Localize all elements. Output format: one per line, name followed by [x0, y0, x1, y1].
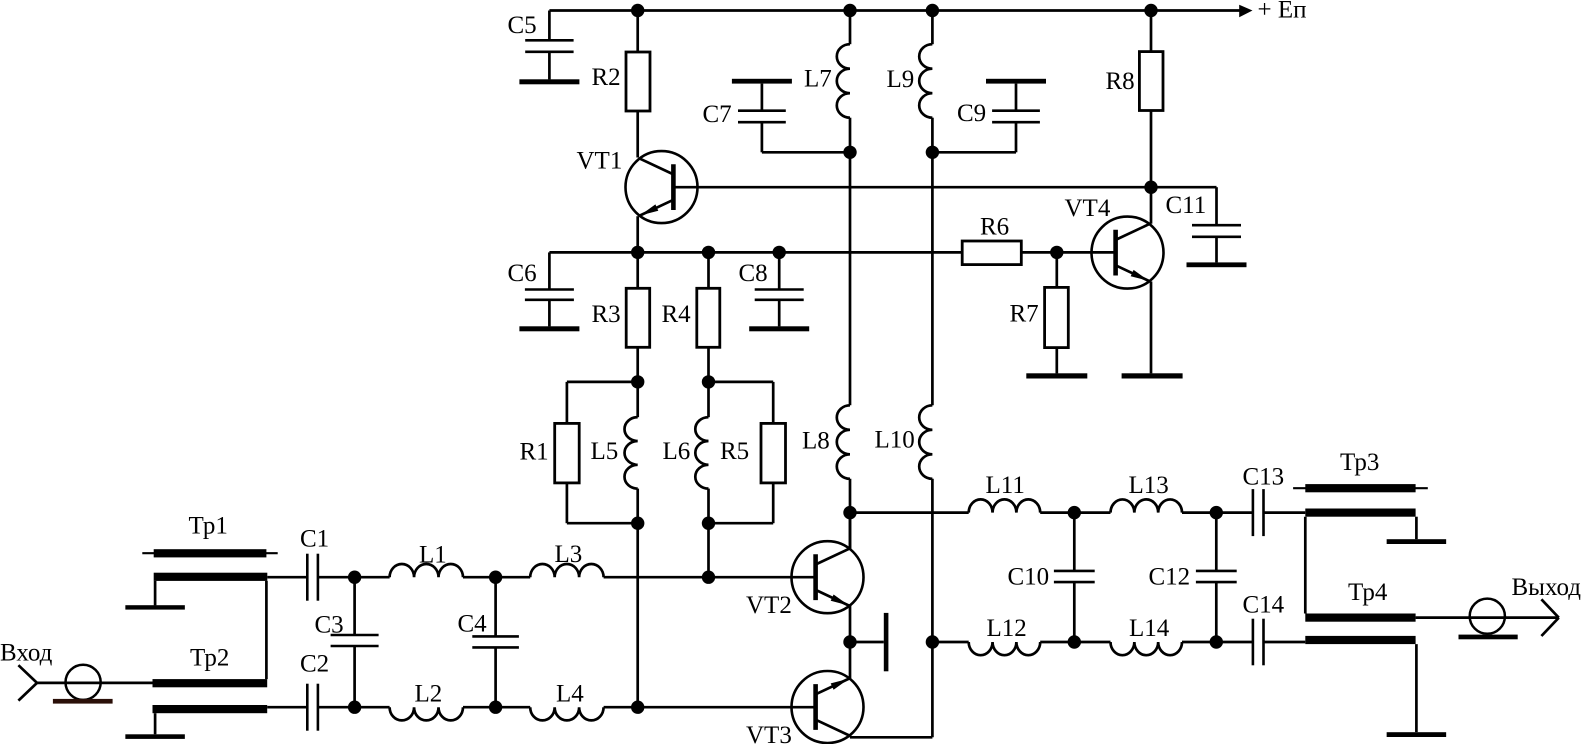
node L9-C9: [926, 146, 939, 159]
wire VT1 base line: [673, 186, 1216, 189]
node C10-top: [1068, 506, 1081, 519]
svg-text:L7: L7: [804, 66, 832, 93]
node C4-top: [489, 571, 502, 584]
wire R6 to VT4 base: [1021, 251, 1115, 254]
wire L7-L8: [849, 152, 852, 405]
wire L10 to L12: [932, 641, 968, 644]
resistor R3: [626, 252, 650, 382]
node C3-bottom: [348, 701, 361, 714]
svg-text:VT4: VT4: [1065, 195, 1111, 222]
svg-text:L10: L10: [875, 427, 915, 454]
label C6: [508, 260, 537, 287]
svg-text:C14: C14: [1243, 592, 1285, 619]
svg-text:C5: C5: [508, 12, 537, 39]
node base-line-R8: [1144, 181, 1157, 194]
capacitor C1: [307, 554, 318, 601]
transformer Tp4 bar2: [1305, 636, 1415, 644]
svg-text:R4: R4: [662, 301, 692, 328]
capacitor C6: [525, 252, 574, 326]
label L4: [556, 681, 584, 708]
wire L5-block down: [636, 523, 639, 707]
svg-text:R3: R3: [592, 301, 621, 328]
resistor R5: [761, 423, 786, 483]
wire Tp2 ground leg: [154, 713, 157, 734]
capacitor C8: [755, 252, 804, 326]
ground Tp2: [125, 734, 185, 739]
svg-text:C8: C8: [739, 260, 768, 287]
svg-text:VT3: VT3: [746, 722, 792, 744]
svg-text:R5: R5: [720, 438, 749, 465]
svg-text:R7: R7: [1010, 301, 1039, 328]
svg-text:L6: L6: [663, 438, 691, 465]
node rail-L7: [843, 4, 856, 17]
label VT1: [577, 148, 623, 175]
label Tp3: [1340, 449, 1379, 476]
inductor L3: [530, 564, 603, 577]
svg-text:C1: C1: [300, 526, 329, 553]
svg-text:C13: C13: [1243, 464, 1285, 491]
svg-text:Тр2: Тр2: [190, 645, 229, 672]
resistor R2: [626, 11, 650, 158]
transformer Tp1 bar1: [154, 549, 267, 557]
svg-text:L3: L3: [555, 541, 583, 568]
capacitor C3: [331, 577, 379, 707]
wire C14 to Tp4: [1264, 641, 1306, 644]
label R4: [662, 301, 692, 328]
svg-text:L2: L2: [415, 681, 443, 708]
inductor L1: [390, 564, 463, 577]
svg-text:R1: R1: [520, 439, 549, 466]
transformer Tp1 line: [142, 552, 277, 554]
resistor R8: [1139, 11, 1163, 188]
wire L14 to C14: [1182, 641, 1253, 644]
wire C13 to Tp3: [1264, 511, 1306, 514]
svg-text:Тр1: Тр1: [189, 513, 228, 540]
transistor VT2: [792, 541, 864, 613]
svg-text:C10: C10: [1008, 564, 1050, 591]
ground midpoint bar: [850, 613, 888, 671]
svg-text:VT2: VT2: [746, 592, 792, 619]
svg-text:+ Еп: + Еп: [1258, 0, 1307, 24]
label L6: [663, 438, 691, 465]
transformer Tp3 bar2: [1305, 509, 1415, 517]
ground Tp4: [1387, 732, 1447, 737]
node rail-R2: [631, 4, 644, 17]
node C10-bottom: [1068, 635, 1081, 648]
ground C7: [732, 79, 792, 84]
output fork: [1541, 599, 1558, 636]
inductor L10: [919, 405, 932, 642]
transformer Tp2 bar1: [153, 679, 268, 687]
svg-text:Тр3: Тр3: [1340, 449, 1379, 476]
inductor L11: [969, 499, 1041, 512]
svg-text:L4: L4: [556, 681, 584, 708]
label VT2: [746, 592, 792, 619]
wire VT3 emitter: [849, 642, 852, 679]
label Tp1: [189, 513, 228, 540]
wire C2 to node: [318, 706, 355, 709]
label C9: [957, 100, 986, 127]
label L2: [415, 681, 443, 708]
capacitor C7: [738, 84, 786, 153]
wire C1 to node: [318, 576, 355, 579]
label C3: [315, 612, 344, 639]
inductor L6: [695, 382, 708, 523]
node mid-C8: [773, 246, 786, 259]
svg-text:R6: R6: [980, 214, 1009, 241]
wire R5 bottom: [709, 483, 774, 523]
label +Ep: [1258, 0, 1307, 24]
wire input: [37, 682, 154, 685]
node L4-R3branch: [631, 701, 644, 714]
wire +Ep supply rail: [549, 9, 1239, 12]
resistor R4: [697, 252, 720, 382]
label R2: [592, 64, 621, 91]
ground Tp1: [125, 605, 185, 609]
inductor L5: [625, 382, 638, 523]
transistor VT4: [1092, 217, 1164, 289]
label C2: [300, 651, 329, 678]
ground C5: [519, 79, 579, 84]
node R3-bottom: [631, 375, 644, 388]
svg-text:C7: C7: [703, 101, 732, 128]
svg-text:L9: L9: [887, 66, 915, 93]
label C11: [1166, 192, 1207, 219]
wire Tp4 ground leg: [1415, 644, 1418, 732]
label C7: [703, 101, 732, 128]
label R1: [520, 439, 549, 466]
label Vyhod: [1512, 574, 1581, 601]
inductor L9: [919, 11, 932, 153]
capacitor C13: [1253, 489, 1264, 536]
label L5: [591, 438, 619, 465]
svg-text:C2: C2: [300, 651, 329, 678]
wire L12-L14: [1040, 641, 1110, 644]
svg-text:L1: L1: [419, 542, 447, 569]
svg-text:R2: R2: [592, 64, 621, 91]
label R8: [1106, 68, 1135, 95]
inductor L14: [1111, 642, 1183, 655]
node L10-bottom: [926, 635, 939, 648]
label C14: [1243, 592, 1285, 619]
label L7: [804, 66, 832, 93]
label L13: [1129, 472, 1169, 499]
label VT3: [746, 722, 792, 744]
label VT4: [1065, 195, 1111, 222]
wire Tp1 to C1: [267, 576, 307, 579]
resistor R7: [1045, 252, 1069, 373]
inductor L13: [1111, 499, 1183, 512]
transistor VT1: [626, 151, 698, 223]
svg-text:Тр4: Тр4: [1348, 579, 1388, 606]
node L6-branch: [702, 571, 715, 584]
node R4-bottom: [702, 375, 715, 388]
label C8: [739, 260, 768, 287]
svg-text:L8: L8: [802, 428, 830, 455]
wire R5 top: [709, 382, 774, 424]
transformer Tp4 bar1: [1305, 614, 1415, 622]
svg-text:R8: R8: [1106, 68, 1135, 95]
wire C6-R6 line: [549, 251, 962, 254]
resistor R6: [962, 241, 1021, 265]
svg-text:VT1: VT1: [577, 148, 623, 175]
wire L2-L4: [463, 706, 530, 709]
wire VT1 emitter: [636, 216, 639, 252]
ground Tp3: [1387, 539, 1447, 544]
capacitor C2: [307, 684, 318, 731]
node L6-bottom: [702, 517, 715, 530]
svg-text:C3: C3: [315, 612, 344, 639]
svg-text:L11: L11: [986, 472, 1025, 499]
svg-text:L14: L14: [1129, 615, 1170, 642]
transistor VT3: [792, 671, 864, 743]
output connector circle: [1470, 599, 1505, 634]
node VT2-collector: [843, 506, 856, 519]
capacitor C4: [472, 577, 519, 707]
svg-text:C12: C12: [1149, 564, 1191, 591]
wire Tp2 to C2: [267, 706, 307, 709]
label C5: [508, 12, 537, 39]
capacitor C11: [1192, 187, 1241, 262]
wire C7 to L7: [762, 151, 850, 154]
node VT2-emitter: [843, 635, 856, 648]
node mid-R7: [1050, 246, 1063, 259]
ground C11: [1187, 262, 1247, 267]
wire Tp1 ground leg: [154, 581, 157, 606]
transformer Tp3 line: [1293, 487, 1428, 489]
ground C6: [519, 326, 579, 331]
node rail-R8: [1144, 4, 1157, 17]
label R5: [720, 438, 749, 465]
label Vhod: [0, 640, 53, 667]
label R6: [980, 214, 1009, 241]
label C1: [300, 526, 329, 553]
wire node to L2: [355, 706, 390, 709]
wire VT2 collector: [849, 513, 852, 550]
ground C9: [986, 79, 1046, 84]
label Tp4: [1348, 579, 1388, 606]
wire node to L1: [355, 576, 390, 579]
label L11: [986, 472, 1025, 499]
node L5-bottom: [631, 517, 644, 530]
svg-text:C9: C9: [957, 100, 986, 127]
inductor L7: [837, 11, 850, 153]
svg-text:C6: C6: [508, 260, 537, 287]
wire Tp3-Tp4 link: [1304, 517, 1307, 614]
wire Tp1-Tp2 link: [265, 581, 268, 679]
capacitor C12: [1196, 513, 1237, 642]
label L14: [1129, 615, 1170, 642]
node rail-L9: [926, 4, 939, 17]
wire L13 to C13: [1182, 511, 1253, 514]
resistor R1: [555, 423, 580, 483]
wire L4 to VT3 base: [604, 706, 816, 709]
label L1: [419, 542, 447, 569]
capacitor C10: [1054, 513, 1095, 642]
wire VT2 emitter: [849, 605, 852, 642]
capacitor C14: [1253, 619, 1264, 666]
svg-text:L5: L5: [591, 438, 619, 465]
capacitor C5: [525, 11, 573, 80]
svg-text:Выход: Выход: [1512, 574, 1581, 601]
wire L11-L13: [1040, 511, 1110, 514]
node L7-C7: [843, 146, 856, 159]
label R3: [592, 301, 621, 328]
label C10: [1008, 564, 1050, 591]
arrowhead +Ep: [1239, 5, 1252, 17]
inductor L12: [969, 642, 1041, 655]
wire R1 top: [567, 382, 638, 424]
capacitor C9: [992, 84, 1040, 153]
wire Tp3 ground leg: [1415, 517, 1418, 540]
svg-text:C11: C11: [1166, 192, 1207, 219]
inductor L8: [837, 405, 850, 549]
wire R1 bottom: [567, 483, 638, 523]
inductor L4: [530, 707, 603, 720]
transformer Tp3 bar1: [1305, 484, 1415, 492]
svg-text:Вход: Вход: [0, 640, 53, 667]
svg-text:C4: C4: [458, 611, 488, 638]
node C12-top: [1210, 506, 1223, 519]
ground R7: [1026, 373, 1087, 378]
wire VT3 collector: [850, 642, 932, 737]
label C13: [1243, 464, 1285, 491]
input fork: [18, 665, 37, 700]
label L3: [555, 541, 583, 568]
label L8: [802, 428, 830, 455]
label C4: [458, 611, 488, 638]
label L10: [875, 427, 915, 454]
node C12-bottom: [1210, 635, 1223, 648]
wire VT4 collector: [1150, 187, 1153, 224]
wire L6-block down: [707, 523, 710, 577]
input connector circle: [66, 665, 101, 700]
label C12: [1149, 564, 1191, 591]
ground C8: [749, 326, 809, 331]
wire VT4 emitter: [1150, 282, 1153, 374]
transformer Tp2 bar2: [153, 705, 268, 713]
wire VT2coll to L11: [850, 511, 969, 514]
wire L1-L3: [463, 576, 530, 579]
label L12: [987, 615, 1027, 642]
wire L9-L10: [931, 152, 934, 405]
output connector bar: [1459, 635, 1518, 640]
transformer Tp1 bar2: [154, 573, 268, 581]
label R7: [1010, 301, 1039, 328]
label Tp2: [190, 645, 229, 672]
label L9: [887, 66, 915, 93]
node mid-R3: [631, 246, 644, 259]
node C4-bottom: [489, 701, 502, 714]
wire C9 to L9: [932, 151, 1016, 154]
node C3-top: [348, 571, 361, 584]
ground VT4: [1122, 373, 1183, 378]
wire L3 to VT2 base: [604, 576, 816, 579]
node mid-R4: [702, 246, 715, 259]
svg-text:L13: L13: [1129, 472, 1169, 499]
input connector bar: [53, 699, 113, 704]
svg-text:L12: L12: [987, 615, 1027, 642]
inductor L2: [390, 707, 463, 720]
wire output: [1416, 616, 1558, 619]
